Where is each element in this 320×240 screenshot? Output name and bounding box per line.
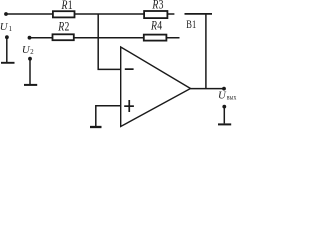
ground bar noninverting input — [90, 126, 102, 128]
svg-text:R1: R1 — [61, 0, 73, 13]
node U2 top terminal — [28, 36, 32, 40]
ground bar U2 — [24, 84, 37, 86]
op-amp minus input sign — [125, 68, 134, 70]
wire U2 lower terminal lead — [29, 59, 31, 85]
resistor R3 — [144, 11, 167, 18]
node output bottom terminal — [222, 105, 226, 109]
wire row1 U1-R1-R3 — [6, 13, 174, 15]
resistor R1 — [53, 11, 75, 17]
node U1 bottom terminal — [5, 35, 9, 39]
svg-text:R4: R4 — [150, 19, 162, 32]
node U2 bottom terminal — [28, 57, 32, 61]
svg-text:R2: R2 — [57, 20, 69, 33]
svg-text:2: 2 — [30, 49, 34, 56]
ground bar U1 — [1, 62, 15, 64]
node output top terminal — [222, 87, 226, 91]
op-amp plus input sign — [124, 100, 134, 112]
op-amp U triangle — [121, 47, 191, 127]
wire row2 U2-R2-R4 — [30, 37, 180, 39]
svg-text:B1: B1 — [186, 19, 196, 32]
svg-text:U: U — [0, 21, 9, 33]
svg-text:1: 1 — [9, 25, 13, 33]
svg-text:R3: R3 — [152, 0, 164, 12]
node U1 top terminal — [4, 12, 8, 16]
wire switch B1 drop to output — [205, 14, 207, 89]
resistor R4 — [144, 35, 167, 41]
wire switch B1 blade — [185, 13, 213, 15]
wire op-amp output — [191, 88, 226, 90]
wire noninverting input to ground — [96, 106, 121, 127]
wire output lower terminal lead — [223, 107, 225, 124]
svg-text:вых: вых — [227, 94, 237, 102]
wire U1 lower terminal lead — [6, 37, 8, 62]
wire inverting bus to op-amp minus input — [98, 14, 121, 69]
ground bar output — [218, 123, 231, 125]
svg-text:U: U — [218, 90, 227, 102]
resistor R2 — [53, 34, 74, 40]
